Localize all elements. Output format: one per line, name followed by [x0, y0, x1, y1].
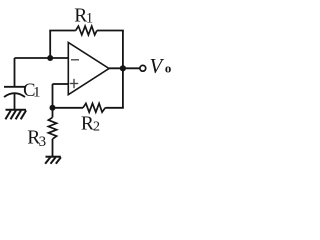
svg-text:R: R — [81, 113, 94, 134]
svg-text:3: 3 — [39, 134, 47, 150]
wire capacitor branch down from main wire — [14, 58, 16, 86]
wire noninverting input horizontal — [53, 83, 69, 85]
capacitor C1 — [4, 87, 25, 97]
node C junction dot (output node on right rail) — [120, 65, 126, 71]
resistor R3 — [48, 117, 56, 138]
label R2 — [81, 113, 100, 134]
wire from R3 to ground — [52, 139, 54, 157]
label R1 — [74, 5, 93, 26]
wire top horizontal right segment from R1 to right rail — [97, 30, 124, 32]
op-amp U1 — [68, 43, 109, 95]
ground (right, under R3) — [45, 157, 61, 164]
wire top-left vertical from node A up to R1 loop — [49, 31, 51, 59]
node B junction dot (noninverting divider node) — [50, 105, 56, 111]
wire from C1 bottom plate to ground — [14, 93, 16, 109]
wire op-amp output to terminal — [109, 67, 140, 69]
wire from R2 to right rail corner — [105, 107, 124, 109]
wire main horizontal to inverting input — [15, 57, 69, 59]
resistor R1 — [76, 26, 97, 35]
output terminal circle — [140, 65, 146, 71]
wire top horizontal left segment to R1 — [49, 30, 75, 32]
svg-text:2: 2 — [93, 120, 100, 135]
op-amp minus sign — [71, 59, 79, 61]
ground (left, under C1) — [5, 110, 26, 120]
label Vo — [150, 55, 172, 78]
wire noninverting branch vertical down to R3 — [52, 84, 54, 117]
op-amp plus sign — [70, 79, 78, 88]
svg-text:o: o — [165, 62, 171, 76]
label R3 — [27, 128, 46, 151]
svg-text:1: 1 — [86, 10, 93, 26]
resistor R2 — [83, 103, 105, 112]
wire from node B to R2 — [53, 107, 84, 109]
node A junction dot (inverting input node) — [47, 55, 53, 61]
svg-text:1: 1 — [33, 85, 41, 101]
wire right vertical rail — [122, 31, 124, 108]
label C1 — [23, 81, 40, 101]
